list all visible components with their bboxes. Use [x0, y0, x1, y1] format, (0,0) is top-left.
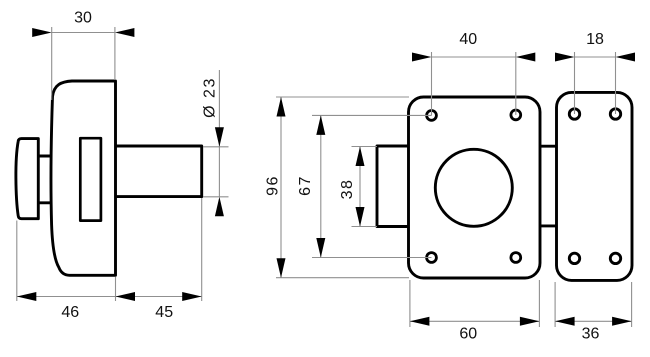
- svg-text:67: 67: [297, 175, 314, 196]
- svg-text:40: 40: [459, 31, 477, 48]
- svg-text:45: 45: [155, 304, 173, 321]
- svg-text:38: 38: [339, 179, 356, 200]
- svg-text:30: 30: [74, 10, 92, 27]
- svg-text:36: 36: [582, 325, 600, 342]
- svg-text:60: 60: [459, 325, 477, 342]
- svg-text:18: 18: [586, 31, 604, 48]
- svg-text:Ø 23: Ø 23: [201, 77, 218, 118]
- svg-text:96: 96: [265, 175, 282, 196]
- svg-text:46: 46: [61, 304, 79, 321]
